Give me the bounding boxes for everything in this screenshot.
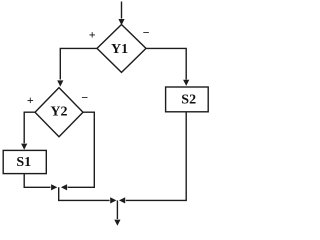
svg-text:−: −: [81, 91, 88, 105]
svg-text:Y2: Y2: [50, 105, 67, 120]
svg-text:−: −: [143, 25, 150, 39]
svg-text:+: +: [89, 28, 96, 42]
svg-text:S1: S1: [16, 155, 31, 170]
svg-text:Y1: Y1: [111, 42, 128, 57]
svg-text:S2: S2: [181, 92, 196, 107]
svg-text:+: +: [27, 93, 34, 107]
